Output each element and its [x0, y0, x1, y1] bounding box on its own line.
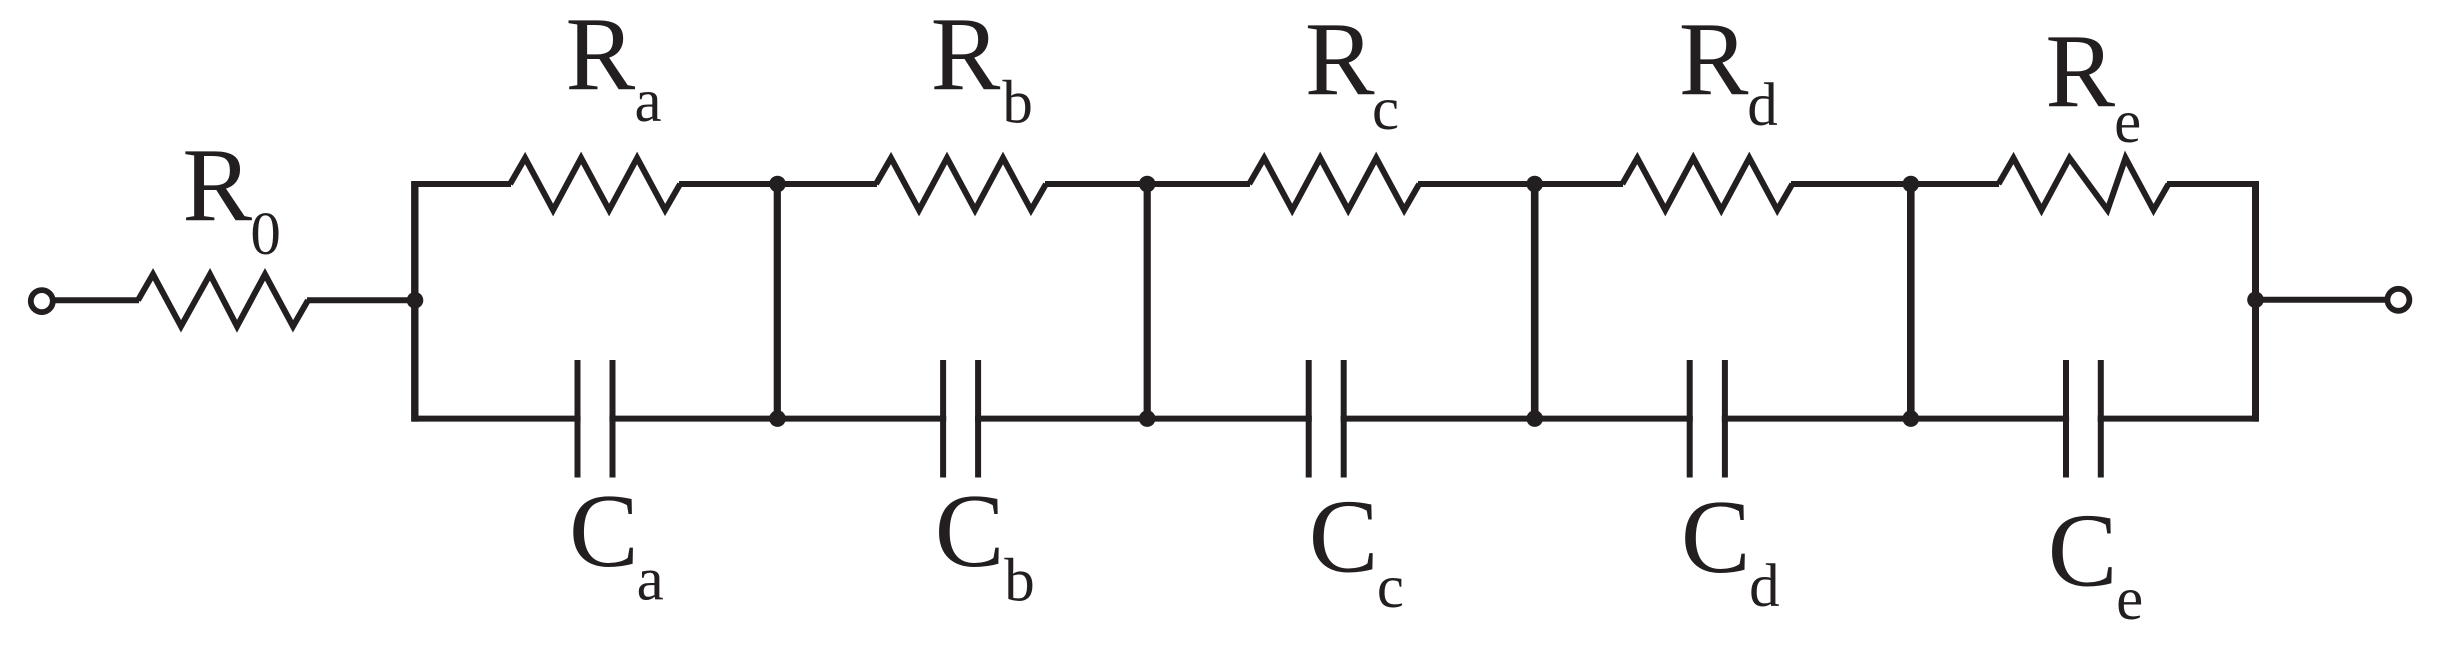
capacitor Cd	[1690, 360, 1725, 478]
svg-text:e: e	[2114, 89, 2141, 156]
svg-text:d: d	[1749, 553, 1780, 620]
wire bottom rail segment 4	[1341, 416, 1693, 422]
resistor Ra	[510, 158, 680, 210]
wire bottom rail segment 5	[1722, 416, 2069, 422]
capacitor Ce	[2066, 360, 2101, 478]
svg-text:c: c	[1372, 76, 1399, 143]
wire node-e vertical	[1907, 184, 1915, 419]
svg-text:a: a	[635, 68, 662, 135]
wire top rail segment 1	[412, 181, 511, 187]
node C top junction dot	[1139, 176, 1156, 193]
svg-text:b: b	[1004, 547, 1035, 614]
wire top rail segment 5	[1791, 181, 1999, 187]
node B bottom junction dot	[769, 410, 786, 427]
svg-text:C: C	[1309, 478, 1379, 594]
wire left vertical rail	[411, 181, 418, 422]
wire bottom rail segment 3	[975, 416, 1312, 422]
node OUT junction dot	[2247, 292, 2264, 309]
wire bottom rail segment 6	[2098, 416, 2259, 422]
svg-text:R: R	[931, 0, 1001, 112]
svg-text:d: d	[1747, 72, 1778, 139]
output terminal	[2387, 289, 2409, 311]
node A junction dot	[407, 292, 424, 309]
wire top rail segment 2	[679, 181, 877, 187]
wire node-c vertical	[1144, 184, 1151, 419]
resistor R0	[138, 274, 308, 326]
resistor Rc	[1249, 158, 1419, 210]
resistor Rd	[1622, 158, 1792, 210]
node D bottom junction dot	[1526, 410, 1543, 427]
resistor Re	[1999, 158, 2169, 210]
svg-text:0: 0	[250, 201, 281, 268]
svg-text:e: e	[2116, 566, 2143, 633]
capacitor Cb	[943, 360, 978, 478]
wire bottom rail segment 2	[609, 416, 946, 422]
svg-text:b: b	[1002, 69, 1033, 136]
svg-text:a: a	[637, 547, 664, 614]
svg-text:C: C	[1681, 479, 1751, 595]
wire right vertical rail	[2252, 181, 2259, 422]
svg-text:R: R	[1305, 1, 1375, 117]
wire top rail segment 6	[2167, 181, 2259, 187]
resistor Rb	[876, 158, 1046, 210]
node E top junction dot	[1903, 176, 1920, 193]
svg-text:c: c	[1377, 554, 1404, 621]
svg-text:C: C	[569, 473, 639, 589]
svg-text:C: C	[935, 473, 1005, 589]
svg-text:R: R	[2045, 13, 2115, 129]
wire output	[2256, 297, 2388, 303]
svg-text:R: R	[182, 127, 252, 243]
svg-text:R: R	[566, 0, 636, 112]
wire node-b vertical	[774, 184, 781, 419]
node B top junction dot	[769, 176, 786, 193]
node D top junction dot	[1526, 176, 1543, 193]
wire top rail segment 3	[1045, 181, 1250, 187]
wire input to R0	[55, 297, 139, 303]
wire node-d vertical	[1531, 184, 1539, 419]
capacitor Cc	[1309, 360, 1344, 478]
node C bottom junction dot	[1139, 410, 1156, 427]
input terminal	[31, 290, 53, 312]
capacitor Ca	[578, 360, 613, 478]
node E bottom junction dot	[1903, 410, 1920, 427]
svg-text:C: C	[2048, 493, 2118, 609]
wire R0 to node A	[307, 297, 418, 303]
svg-text:R: R	[1679, 1, 1749, 117]
wire bottom rail segment 1	[412, 416, 581, 422]
wire top rail segment 4	[1418, 181, 1623, 187]
